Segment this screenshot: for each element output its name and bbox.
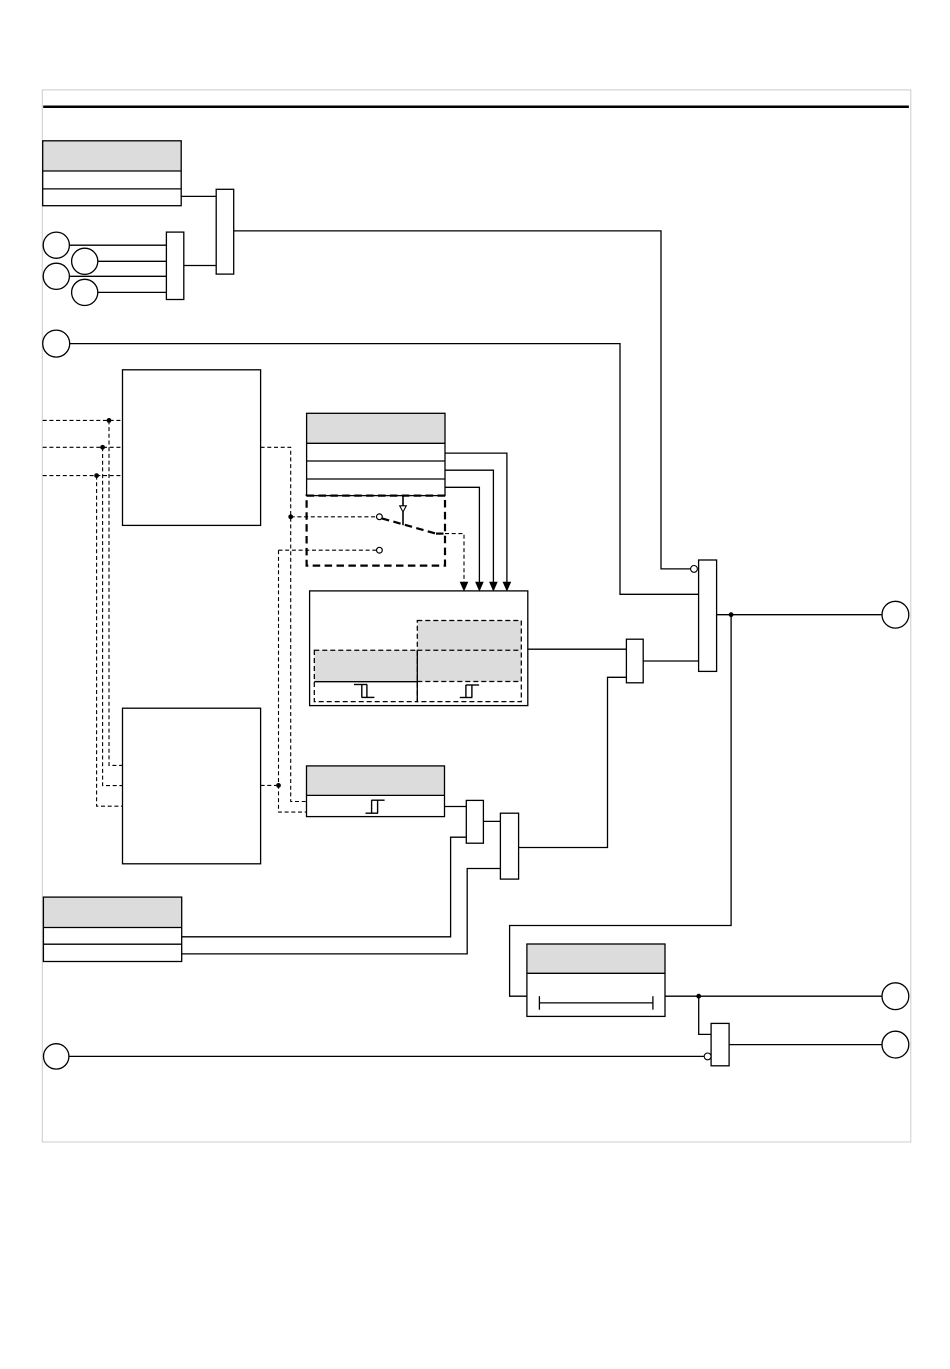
hysteresis symbol left (inverting) — [354, 685, 374, 698]
dashed net block B1 output to switch contact 1 and block C input 1 — [261, 447, 377, 801]
input circle IN4 — [72, 279, 167, 305]
block E (timer block, gray header) — [527, 944, 665, 1016]
timer interval symbol — [539, 996, 653, 1010]
hysteresis symbol block C (non-inverting) — [366, 800, 385, 813]
junction dot block E output — [696, 994, 701, 999]
block D (bottom-left register box) — [43, 897, 181, 961]
wire block D row2 to V2 — [182, 869, 501, 954]
junction dot net B2 — [276, 783, 281, 788]
dashed net D1 — [43, 420, 123, 765]
inversion bubble at gate U7 input — [704, 1053, 711, 1060]
wire comparator to buffer U5 — [528, 648, 627, 650]
connector J2 — [166, 232, 183, 299]
wire J2 to J1 — [184, 265, 216, 267]
output circle OUT3 — [882, 1031, 909, 1058]
dashed wire switch output to comparator (arrow) — [445, 534, 468, 591]
dashed net block B2 output to switch contact 2 and block C input 2 — [261, 550, 377, 812]
dashed level line crossing right region — [417, 649, 521, 651]
input circle IN3 — [43, 263, 166, 289]
input circle IN6 — [44, 1044, 69, 1069]
junction dot MUX output — [729, 612, 734, 617]
wire gate U7 to OUT3 — [729, 1044, 882, 1046]
switch actuator arrow — [400, 496, 407, 526]
switch contact 1 — [377, 514, 383, 520]
connector J1 — [216, 189, 234, 274]
wire R row3 to comparator (arrow) — [445, 487, 483, 590]
junction dot D2 — [100, 445, 105, 450]
dashed net D2 — [43, 447, 123, 785]
wire block D row1 to V1 — [182, 837, 467, 937]
output circle OUT1 — [882, 601, 909, 628]
wire V2 to buffer U5 second input — [519, 677, 627, 847]
junction dot D1 — [107, 418, 112, 423]
wire IN5 to MUX — [70, 344, 699, 595]
block B2 (lower left processing box) — [123, 708, 261, 864]
input circle IN1 — [43, 232, 166, 258]
level block V2 — [500, 813, 518, 879]
input circle IN5 — [43, 330, 70, 357]
block C (hysteresis block, gray header) — [307, 766, 445, 817]
inversion bubble at MUX input — [691, 566, 698, 573]
comparator block U1 — [310, 591, 528, 706]
dashed net D3 — [43, 476, 123, 807]
wire J1 to MUX inverted input — [234, 231, 691, 569]
block B1 (upper left processing box) — [123, 370, 261, 526]
switch blade — [382, 518, 445, 533]
switch box S1 (heavy dashed) — [307, 496, 445, 566]
output circle OUT2 — [882, 983, 909, 1010]
switch contact 2 — [377, 547, 383, 553]
gate U7 — [711, 1023, 729, 1065]
wire MUX output to OUT1 — [717, 614, 882, 616]
comparator inner region right (gray) — [417, 621, 521, 702]
wire block E to OUT2 — [665, 995, 882, 997]
wire IN6 to gate U7 — [69, 1055, 704, 1057]
wire buffer U5 to MUX — [643, 660, 698, 662]
wire R row1 to comparator (arrow) — [445, 453, 511, 590]
wire block A to connector J1 — [181, 195, 216, 197]
wire block E output to gate U7 — [699, 996, 711, 1034]
junction dot net B1 — [288, 514, 293, 519]
page frame — [42, 90, 911, 1142]
wire R row2 to comparator (arrow) — [445, 470, 497, 590]
MUX U6 — [699, 560, 717, 671]
input circle IN2 — [72, 248, 167, 274]
solid level line left region — [314, 681, 417, 683]
wire V1 to V2 — [483, 820, 500, 822]
junction dot D3 — [94, 473, 99, 478]
dashed level line right region — [417, 681, 521, 683]
comparator inner region left (gray) — [314, 650, 417, 701]
feedback wire MUX output to block E — [510, 615, 731, 997]
header rule — [43, 105, 909, 108]
register bank R (gray header, 4 rows) — [307, 413, 445, 495]
level block V1 — [466, 800, 483, 843]
divider between regions — [416, 650, 418, 701]
hysteresis symbol right (non-inverting) — [460, 685, 479, 698]
block A (top-left register box) — [43, 141, 182, 206]
wire block C to rect V1 — [445, 806, 467, 808]
buffer U5 — [626, 639, 643, 683]
